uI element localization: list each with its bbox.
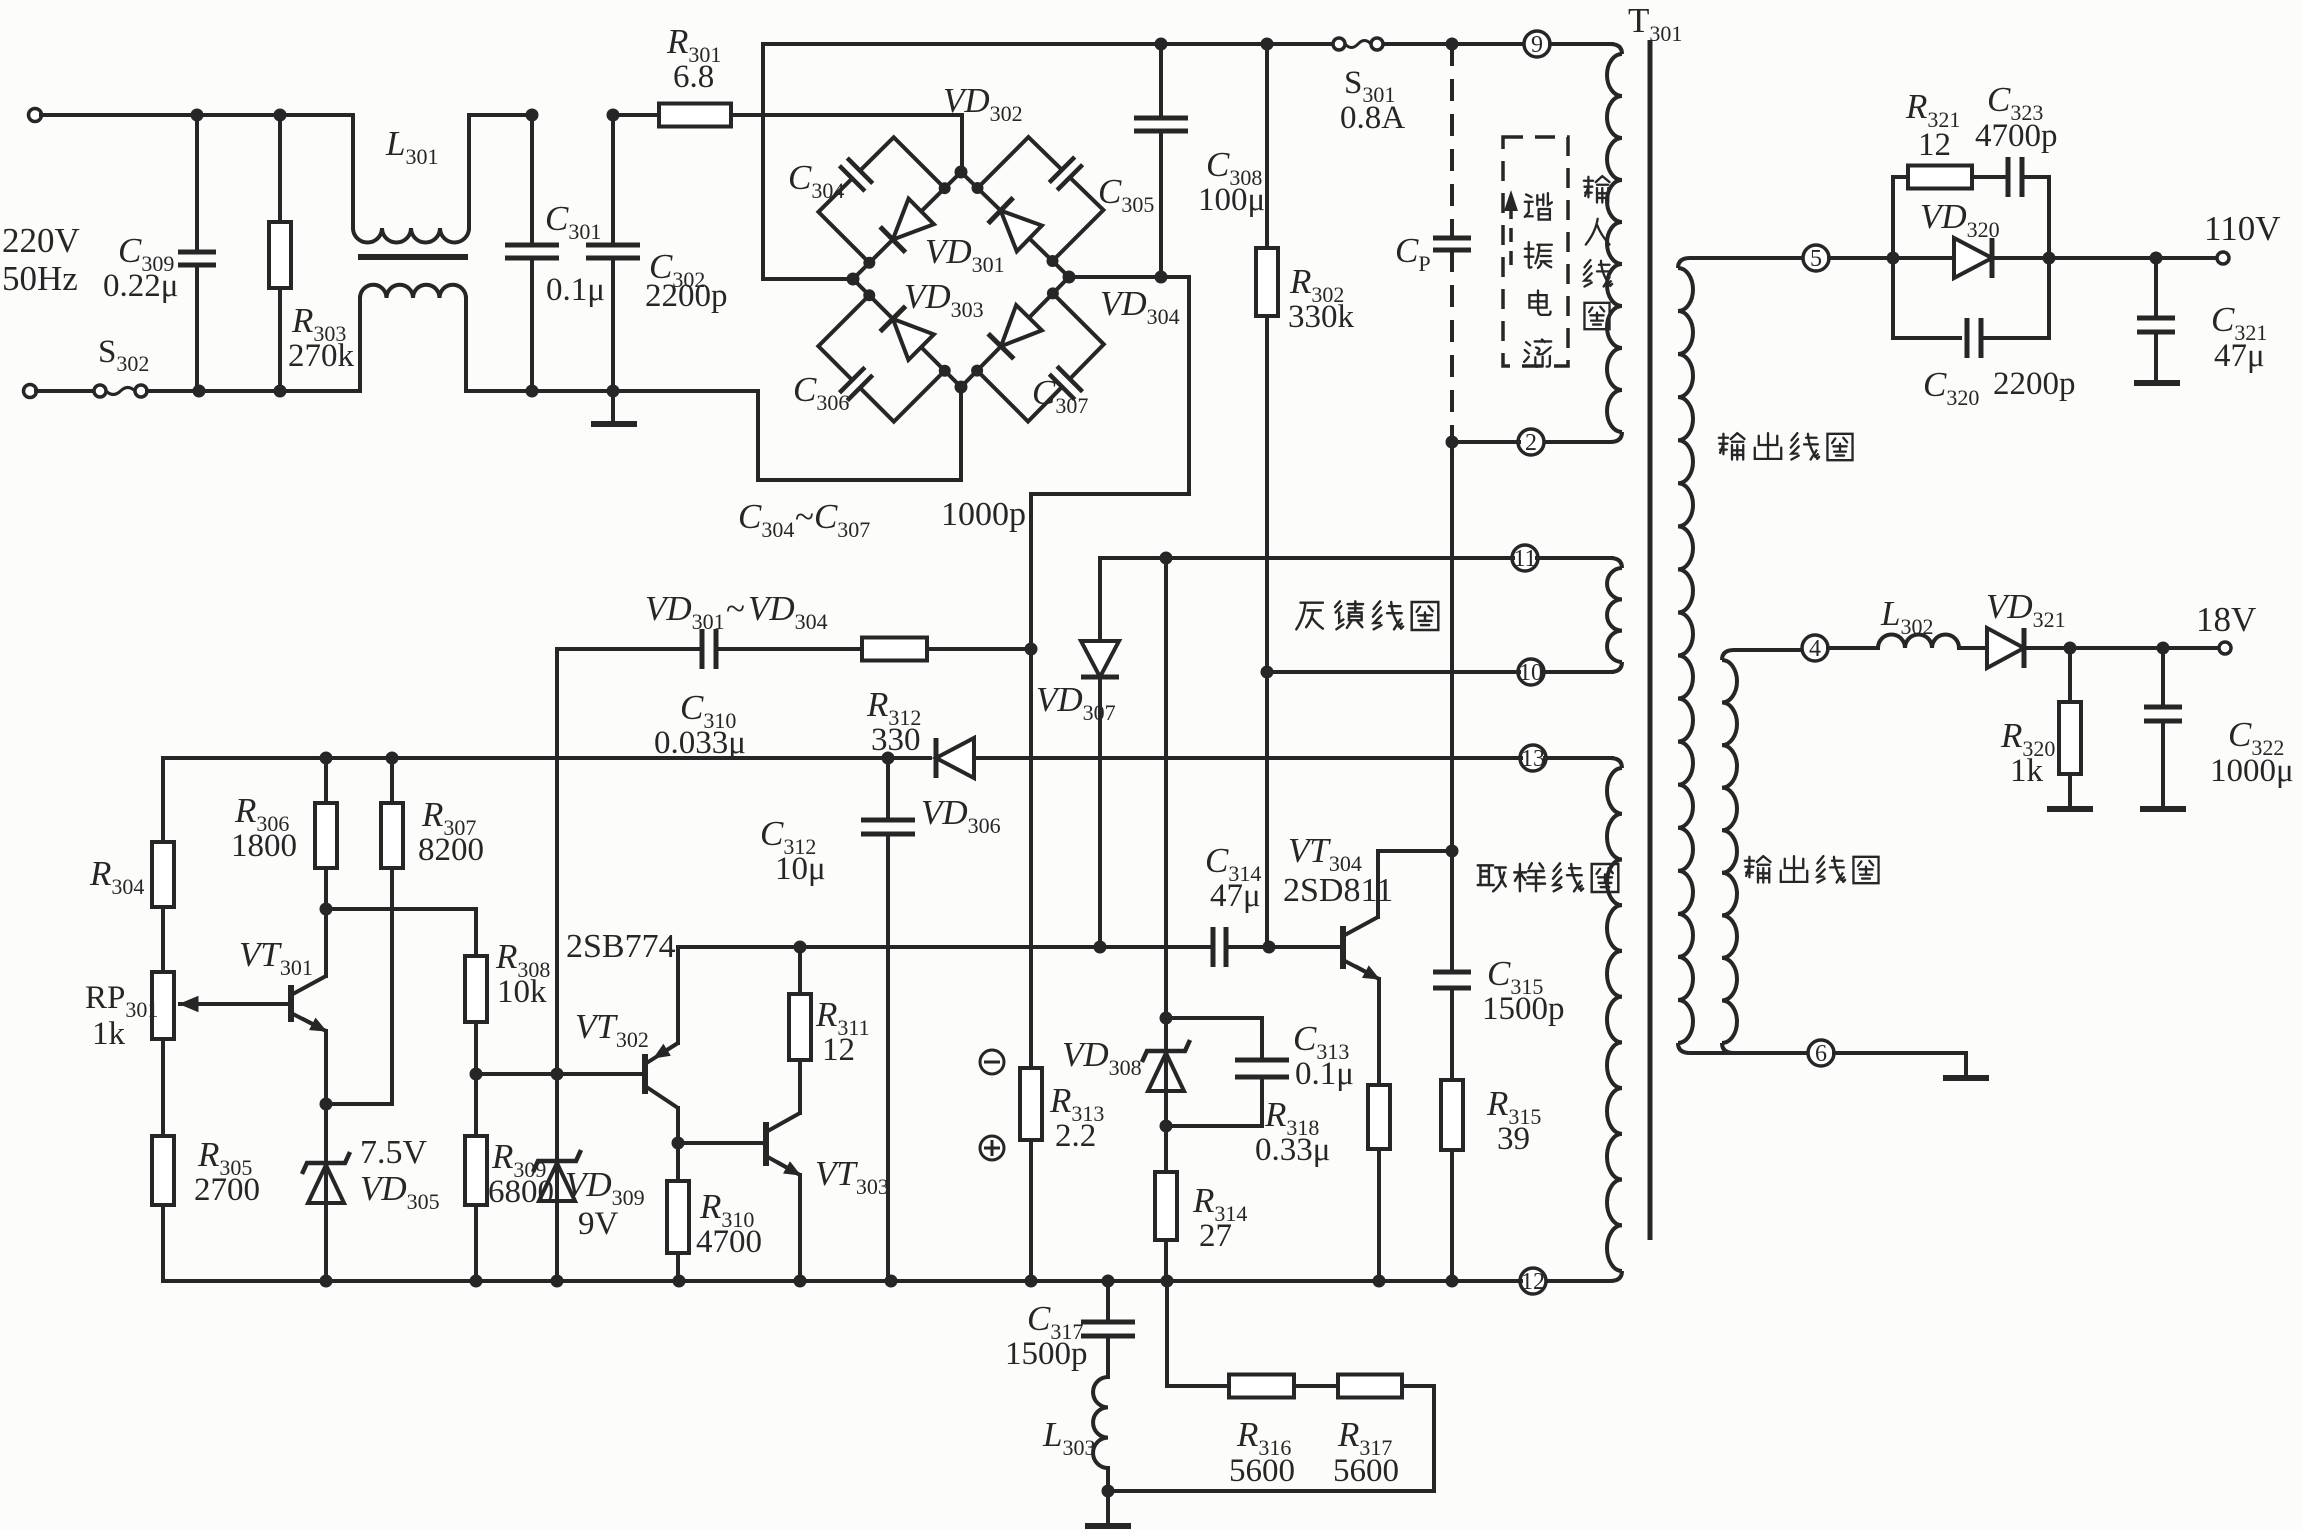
pin 11 <box>1512 545 1538 572</box>
svg-text:0.33μ: 0.33μ <box>1255 1132 1330 1168</box>
wire L301 bottom lead right <box>464 298 468 391</box>
wire C323 to right rail <box>2022 177 2049 258</box>
inductor L303 <box>1093 1377 1108 1468</box>
svg-text:100μ: 100μ <box>1198 182 1265 218</box>
node rail R310 <box>673 1275 686 1288</box>
wire line13 left <box>163 756 930 760</box>
node R303 bottom <box>274 385 287 398</box>
node L303 bottom <box>1102 1485 1115 1498</box>
wire VT301 collector <box>324 909 328 976</box>
transistor VT303 <box>763 1122 769 1166</box>
node rail R318 <box>1373 1275 1386 1288</box>
node VD308 top <box>1160 1012 1173 1025</box>
transistor VT304 <box>1340 926 1346 969</box>
wire C321 lower <box>2154 332 2158 381</box>
wire R305 to rail <box>161 1205 165 1281</box>
terminal 220V line top <box>29 109 42 122</box>
ground C322 <box>2140 806 2186 812</box>
transformer sampling winding <box>1607 768 1622 1271</box>
node CP top <box>1446 38 1459 51</box>
resistor R306 <box>315 803 337 868</box>
wire C308 upper <box>1159 44 1163 118</box>
resistor R313 <box>1020 1068 1042 1140</box>
wire C309 upper <box>195 115 199 252</box>
svg-text:27: 27 <box>1199 1218 1232 1254</box>
svg-text:2200p: 2200p <box>1993 366 2076 402</box>
transistor VT301 <box>288 985 294 1022</box>
diode VD306 <box>936 738 974 778</box>
resistor R302 <box>1256 248 1278 316</box>
wire C314 to base <box>1226 945 1343 949</box>
wire R314 lower <box>1164 1240 1168 1281</box>
potentiometer RP301 wiper arrow <box>198 1002 291 1006</box>
resistor R307 <box>381 803 403 868</box>
wire bridge arm VD301 <box>853 172 961 279</box>
resistor R321 <box>1908 166 1972 189</box>
svg-text:50Hz: 50Hz <box>2 259 78 298</box>
wire R314 upper <box>1164 1126 1168 1172</box>
node C301 bottom <box>526 385 539 398</box>
wire C302 lower <box>611 258 615 422</box>
ground L303 <box>1085 1523 1131 1529</box>
wire C301 lower <box>530 258 534 391</box>
wire C317 to L303 <box>1106 1336 1110 1377</box>
wire R321 branch <box>1893 175 1908 179</box>
label 谐振电流 <box>1524 193 1552 367</box>
diode VD307 <box>1081 641 1119 677</box>
wire C315 upper <box>1450 851 1454 972</box>
wire C315 to R315 <box>1450 988 1454 1080</box>
node 110V right <box>2043 252 2056 265</box>
capacitor C301 <box>505 245 559 258</box>
svg-text:13: 13 <box>1521 746 1545 772</box>
switch S301 <box>1333 38 1345 50</box>
wire R310 upper <box>676 1143 680 1181</box>
svg-text:2SB774: 2SB774 <box>566 928 676 965</box>
node C321 top <box>2150 252 2163 265</box>
wire R304 to RP301 <box>161 907 165 972</box>
node R320 top <box>2064 642 2077 655</box>
node VT301 emitter <box>320 1098 333 1111</box>
node 110V left <box>1887 252 1900 265</box>
resistor R314 <box>1155 1172 1177 1240</box>
wire VT301 emitter <box>324 1031 328 1104</box>
svg-text:2700: 2700 <box>194 1172 260 1208</box>
wire L301 top lead left <box>351 115 355 228</box>
zener diode VD308 <box>1142 1040 1190 1062</box>
switch S302 <box>94 385 106 397</box>
label 取样线圈 <box>1478 863 1619 892</box>
svg-text:5600: 5600 <box>1229 1453 1295 1489</box>
wire 110V out <box>2049 256 2217 260</box>
node C322 top <box>2157 642 2170 655</box>
transistor VT302 <box>642 1054 648 1094</box>
wire R302 upper <box>1265 44 1269 248</box>
node C312 top <box>882 752 895 765</box>
wire VT301 base <box>180 1002 291 1006</box>
ground C321 <box>2134 380 2180 386</box>
wire base line VT302 <box>476 1072 645 1076</box>
svg-text:6.8: 6.8 <box>673 59 714 95</box>
annotation resonant current box <box>1503 137 1568 366</box>
terminal 220V line bottom <box>24 385 37 398</box>
core T301 <box>1648 40 1653 1240</box>
capacitor C315 <box>1433 972 1471 988</box>
wire R306 upper <box>324 758 328 803</box>
wire collector to R308 <box>326 909 476 956</box>
node rail VT303 emitter <box>794 1275 807 1288</box>
resistor R316 <box>1229 1375 1294 1398</box>
wire 110V network left rail <box>1891 177 1895 338</box>
wire R301 to bridge top <box>731 115 962 172</box>
wire pin2 left <box>1452 440 1519 444</box>
wire VD307 lower <box>1098 681 1102 947</box>
transistor VT303 emitter arrow <box>777 1162 787 1168</box>
wire VT302 collector <box>676 1108 680 1143</box>
node VD307 bottom <box>1094 941 1107 954</box>
polarity minus <box>980 1050 1004 1074</box>
wire C302 upper <box>611 115 615 245</box>
wire R309 lower <box>474 1205 478 1281</box>
resistor R304 <box>152 842 174 907</box>
capacitor C320 <box>1967 318 1981 358</box>
wire to R301 <box>613 113 659 117</box>
pin 6 <box>1808 1040 1834 1067</box>
wire C310 drop <box>555 649 559 1074</box>
node rail C317 <box>1102 1275 1115 1288</box>
svg-text:330: 330 <box>871 722 921 758</box>
node C302 bottom <box>607 385 620 398</box>
wire pin5 to network <box>1829 256 1893 260</box>
svg-text:10k: 10k <box>497 974 547 1010</box>
wire VD308 branch upper <box>1164 558 1168 1018</box>
resistor R309 <box>465 1136 487 1205</box>
wire R316 branch drop <box>1167 1281 1229 1386</box>
capacitor C305 <box>977 137 1061 188</box>
node R302 top <box>1261 38 1274 51</box>
pin 5 <box>1803 245 1829 272</box>
wire CP dashed upper <box>1450 44 1454 238</box>
wire C301 upper <box>530 115 534 245</box>
capacitor CP <box>1433 238 1471 250</box>
resistor R301 <box>659 104 731 127</box>
wire R302 lower <box>1265 316 1269 947</box>
node VD309 top <box>551 1068 564 1081</box>
wire R312 out <box>927 647 1031 651</box>
svg-text:7.5V: 7.5V <box>360 1134 428 1171</box>
svg-text:10: 10 <box>1519 660 1543 686</box>
pin 12 <box>1520 1268 1546 1295</box>
wire bridge arm VD304 <box>961 277 1069 387</box>
transformer feedback winding <box>1607 568 1622 662</box>
wire bridge arm VD302 <box>961 172 1069 277</box>
node C314 R302 <box>1263 941 1276 954</box>
node bridge right <box>1063 271 1076 284</box>
svg-text:6: 6 <box>1815 1041 1827 1067</box>
wire VT304 collector <box>1378 851 1452 917</box>
svg-text:39: 39 <box>1497 1121 1530 1157</box>
svg-text:1000p: 1000p <box>941 496 1026 533</box>
node rail R316 branch <box>1161 1275 1174 1288</box>
node R302 pin10 <box>1261 666 1274 679</box>
svg-text:47μ: 47μ <box>2214 338 2265 374</box>
resistor R305 <box>152 1136 174 1205</box>
transistor VT301 emitter arrow <box>302 1019 313 1025</box>
wire VT303 collector <box>798 1060 802 1113</box>
node R311 top <box>794 941 807 954</box>
ground C302 <box>591 421 637 427</box>
capacitor C310 <box>702 629 716 669</box>
wire VD307 branch <box>1098 558 1102 640</box>
wire top rail left <box>763 42 1333 46</box>
wire C313 loop top <box>1166 1018 1262 1060</box>
wire pin10 to coil <box>1543 670 1612 674</box>
resistor R312 <box>862 638 927 661</box>
wire R315 lower <box>1450 1150 1454 1281</box>
wire VD321 out <box>2024 646 2219 650</box>
wire VD308 to bar <box>1164 1018 1168 1126</box>
svg-text:4700: 4700 <box>696 1224 762 1260</box>
svg-text:1500p: 1500p <box>1005 1336 1088 1372</box>
wire CP line lower <box>1450 442 1454 851</box>
wire emitter to R307 <box>326 1102 392 1106</box>
capacitor C313 <box>1235 1060 1289 1077</box>
svg-text:10μ: 10μ <box>775 851 826 887</box>
wire R321 to C323 <box>1972 175 2008 179</box>
node bridge bottom <box>955 381 968 394</box>
diode VD303 <box>893 319 934 360</box>
svg-text:4700p: 4700p <box>1975 118 2058 154</box>
wire C308 lower <box>1159 131 1163 277</box>
wire pin12 rail <box>163 1279 1521 1283</box>
wire rail drop to bridge left <box>763 44 853 279</box>
svg-text:0.1μ: 0.1μ <box>546 272 605 308</box>
svg-text:1800: 1800 <box>231 828 297 864</box>
node C301 top <box>526 109 539 122</box>
wire C317 upper <box>1106 1281 1110 1322</box>
polarity plus <box>980 1136 1004 1160</box>
wire VT302c to VT303b <box>678 1141 766 1145</box>
wire pin6 to ground <box>1834 1053 1966 1076</box>
resistor R311 <box>789 994 811 1060</box>
wire line11 <box>1100 556 1513 560</box>
svg-text:5600: 5600 <box>1333 1453 1399 1489</box>
wire R320 upper <box>2068 648 2072 702</box>
wire C321 upper <box>2154 258 2158 318</box>
wire VT302 emitter up <box>676 947 680 1043</box>
wire pin9 to coil <box>1550 42 1612 46</box>
pin 10 <box>1518 659 1544 686</box>
diode VD321 <box>1987 628 2024 668</box>
wire R318 lower <box>1377 1149 1381 1281</box>
svg-text:12: 12 <box>1521 1269 1545 1295</box>
inductor L302 <box>1878 635 1959 649</box>
transformer output winding 2 <box>1722 660 1737 1043</box>
wire bridge arm VD303 <box>853 279 961 387</box>
terminal 18V <box>2219 642 2231 654</box>
resistor R303 <box>269 222 291 288</box>
svg-text:2200p: 2200p <box>645 278 728 314</box>
node R312 junction <box>1025 643 1038 656</box>
diode VD301 <box>893 199 934 240</box>
wire C320 to right rail <box>1981 258 2049 338</box>
wire VT303 emitter <box>798 1175 802 1281</box>
wire junction down R313 <box>1029 649 1033 1281</box>
wire bridge right out <box>1031 277 1189 649</box>
wire R310 lower <box>676 1253 680 1281</box>
node R307 top <box>386 752 399 765</box>
resistor R318 <box>1368 1085 1390 1149</box>
capacitor C321 <box>2137 318 2175 332</box>
svg-text:5: 5 <box>1810 246 1822 272</box>
resistor R317 <box>1338 1375 1402 1398</box>
transistor VT304 emitter arrow <box>1355 966 1366 972</box>
wire R303 lower <box>278 288 282 391</box>
wire R307 lower <box>390 868 394 1104</box>
diode VD304 <box>1001 305 1042 346</box>
node R303 top <box>274 109 287 122</box>
node C308 bottom <box>1155 271 1168 284</box>
zener diode VD309 <box>533 1150 581 1172</box>
svg-text:47μ: 47μ <box>1210 878 1261 914</box>
wire VD320 out <box>1992 256 2049 260</box>
wire bridge bottom to AC2 <box>758 387 961 480</box>
node C309 top <box>191 109 204 122</box>
node VT304 collector <box>1446 845 1459 858</box>
node R306 top <box>320 752 333 765</box>
wire AC2 bottom <box>147 389 360 393</box>
svg-text:9: 9 <box>1531 32 1543 58</box>
wire AC1 top <box>41 113 353 117</box>
wire line13 right <box>974 756 1521 760</box>
wire R320 lower <box>2068 774 2072 807</box>
wire R303 upper <box>278 115 282 222</box>
wire R317 out <box>1108 1386 1434 1491</box>
wire L301 top lead right <box>469 115 532 228</box>
node C302 top <box>607 109 620 122</box>
svg-text:110V: 110V <box>2204 209 2280 248</box>
wire pin10 left <box>1267 670 1519 674</box>
pin 9 <box>1524 31 1550 58</box>
node R308 R309 <box>470 1068 483 1081</box>
label 反馈线圈 <box>1296 601 1438 630</box>
label 输出线圈 upper <box>1719 433 1853 460</box>
ground pin6 <box>1943 1075 1989 1081</box>
wire left column <box>161 758 165 842</box>
svg-text:270k: 270k <box>288 338 355 374</box>
pin 2 <box>1518 429 1544 456</box>
node VT302 collector <box>672 1137 685 1150</box>
wire L301 bottom lead left <box>358 298 362 391</box>
wire C312 upper <box>886 758 890 820</box>
wire R308 lower <box>474 1022 478 1136</box>
inductor L301 bottom winding <box>360 285 466 298</box>
svg-text:~: ~ <box>726 589 745 628</box>
capacitor C307 <box>977 371 1062 422</box>
wire pin13 to coil <box>1545 756 1612 760</box>
wire C310 to R312 <box>716 647 862 651</box>
svg-text:18V: 18V <box>2196 600 2256 639</box>
node rail VD309 <box>551 1275 564 1288</box>
resistor R310 <box>667 1181 689 1253</box>
wire R306 lower <box>324 868 328 909</box>
node rail R313 <box>1025 1275 1038 1288</box>
wire L302 to VD321 <box>1959 646 1985 650</box>
transistor VT302 emitter arrow <box>667 1043 678 1050</box>
capacitor C306 <box>818 295 869 380</box>
wire C322 upper <box>2161 648 2165 707</box>
node rail C312 <box>885 1275 898 1288</box>
wire C309 lower <box>195 265 199 391</box>
capacitor C308 <box>1134 118 1188 131</box>
wire VD309 upper <box>555 1074 559 1281</box>
resistor R308 <box>465 956 487 1022</box>
wire C322 lower <box>2161 721 2165 807</box>
capacitor C322 <box>2144 707 2182 721</box>
capacitor C323 <box>2008 157 2022 197</box>
svg-text:2.2: 2.2 <box>1055 1118 1096 1154</box>
node rail VD305 <box>320 1275 333 1288</box>
wire emitter top line <box>678 945 1213 949</box>
wire C310 left <box>557 647 702 651</box>
node bridge top rail C308 <box>1155 38 1168 51</box>
svg-text:1000μ: 1000μ <box>2210 753 2294 789</box>
wire pin11 to coil <box>1537 556 1612 560</box>
potentiometer RP301 <box>152 972 174 1039</box>
diode VD320 <box>1954 238 1992 278</box>
svg-text:12: 12 <box>1918 127 1951 163</box>
node rail R315 <box>1446 1275 1459 1288</box>
pin 4 <box>1802 635 1828 662</box>
diode VD302 <box>1001 211 1042 252</box>
capacitor C304 <box>818 178 869 262</box>
node VD308 line top <box>1160 552 1173 565</box>
capacitor C317 <box>1081 1322 1135 1336</box>
svg-text:1k: 1k <box>2010 753 2044 789</box>
wire AC2 to switch <box>36 389 94 393</box>
wire VD320 leads <box>1893 256 1954 260</box>
terminal 110V <box>2217 252 2229 264</box>
node C309 bottom <box>193 385 206 398</box>
node bridge left <box>847 273 860 286</box>
wire C313 loop bottom <box>1166 1077 1262 1126</box>
wire pin4 to L302 <box>1828 646 1878 650</box>
node VD308 bottom <box>1160 1120 1173 1133</box>
pin 13 <box>1520 745 1546 772</box>
wire C312 lower <box>886 834 890 1281</box>
label 输出线圈 lower <box>1745 856 1879 883</box>
svg-text:0.8A: 0.8A <box>1340 100 1405 136</box>
resistor R315 <box>1441 1080 1463 1150</box>
wire L303 lower <box>1106 1468 1110 1524</box>
svg-text:11: 11 <box>1513 546 1536 572</box>
wire CP dashed lower <box>1450 250 1454 442</box>
wire RP301 to R305 <box>161 1039 165 1136</box>
wire top rail right <box>1383 42 1524 46</box>
svg-text:9V: 9V <box>578 1206 619 1242</box>
svg-text:1k: 1k <box>92 1016 126 1052</box>
transformer input winding <box>1607 54 1622 432</box>
wire R311 upper <box>798 947 802 994</box>
svg-text:8200: 8200 <box>418 832 484 868</box>
svg-text:12: 12 <box>822 1032 855 1068</box>
node rail R309 <box>470 1275 483 1288</box>
svg-text:0.033μ: 0.033μ <box>654 725 746 761</box>
svg-text:330k: 330k <box>1288 299 1355 335</box>
capacitor C312 <box>861 820 915 834</box>
svg-text:220V: 220V <box>2 221 80 260</box>
svg-text:0.22μ: 0.22μ <box>103 268 178 304</box>
